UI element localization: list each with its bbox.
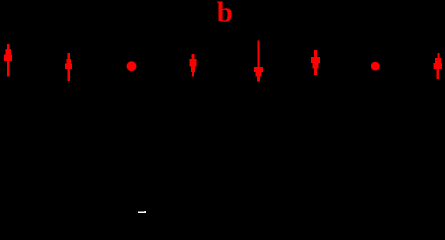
spin up arrow 2 <box>65 53 72 81</box>
spin up arrow 6 <box>434 53 442 79</box>
spin up arrow 1 <box>4 44 12 77</box>
hole dot 2 <box>371 62 380 71</box>
spin down arrow 3 <box>190 54 197 77</box>
white mark (clipped letter at bottom edge) <box>138 211 146 213</box>
long spin down arrow 4 (below b) <box>254 40 263 81</box>
hole dot 1 <box>127 61 137 71</box>
svg-text:b: b <box>217 0 233 28</box>
spin down arrow 5 <box>311 50 320 75</box>
